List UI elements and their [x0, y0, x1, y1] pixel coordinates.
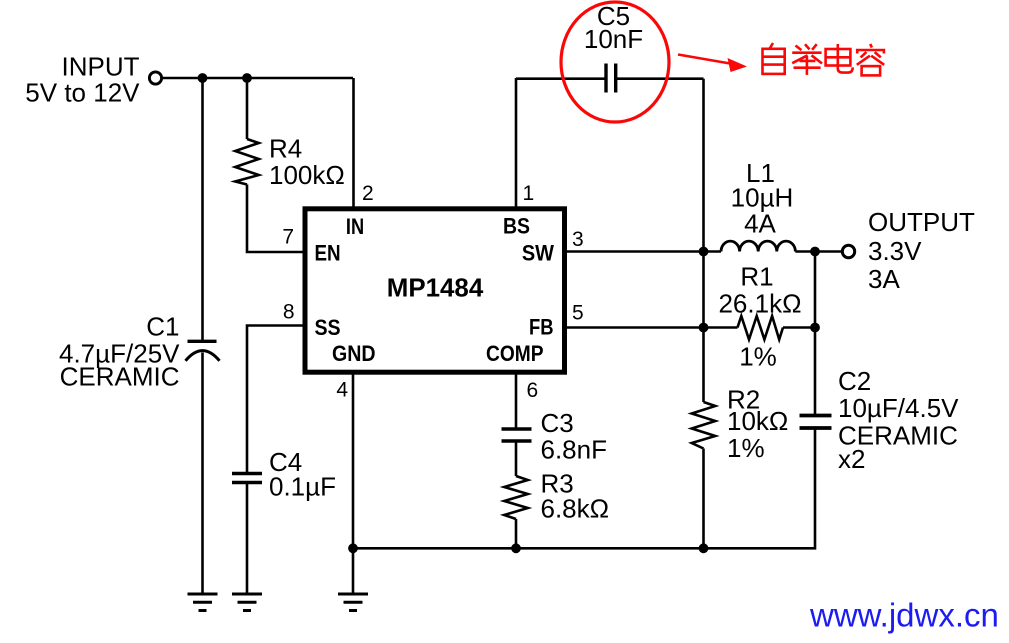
wire pin2 IN lead — [352, 78, 355, 207]
svg-text:2: 2 — [362, 182, 374, 205]
svg-text:10nF: 10nF — [584, 24, 643, 54]
svg-text:3.3V: 3.3V — [868, 236, 922, 266]
char rong (capacity) — [857, 44, 884, 75]
junction dot FB-R2 — [699, 323, 709, 333]
svg-text:C1: C1 — [146, 312, 179, 342]
char ju (lift) — [792, 44, 822, 75]
svg-text:SS: SS — [315, 315, 341, 340]
capacitor C4 label — [269, 447, 336, 502]
capacitor C3 label — [541, 408, 608, 465]
svg-text:10µF/4.5V: 10µF/4.5V — [838, 393, 959, 423]
svg-text:COMP: COMP — [486, 341, 544, 366]
svg-text:1: 1 — [523, 182, 535, 205]
svg-text:4A: 4A — [744, 209, 776, 239]
resistor R4 label — [269, 134, 345, 191]
svg-text:C3: C3 — [541, 408, 574, 438]
junction dot input-R4 — [242, 73, 252, 83]
wire BS-C5 right branch down to SW node — [702, 79, 705, 252]
wire R4 top lead — [246, 78, 249, 139]
wire R3 bottom lead — [515, 519, 518, 548]
svg-text:FB: FB — [529, 315, 554, 340]
svg-text:CERAMIC: CERAMIC — [60, 362, 180, 392]
wire C1 branch lower — [201, 353, 204, 595]
resistor R1 — [738, 316, 784, 340]
wire SW pin lead — [563, 250, 721, 253]
svg-text:BS: BS — [503, 214, 530, 239]
wire C5 left — [516, 77, 605, 80]
wire input horizontal — [162, 77, 354, 80]
svg-text:6: 6 — [527, 379, 539, 402]
junction dot R3 bottom rail — [511, 543, 521, 553]
node OUTPUT label — [868, 207, 975, 294]
capacitor C5 label — [584, 1, 643, 54]
red ellipse annotation around C5 — [561, 2, 669, 122]
junction dot pin4 rail — [348, 543, 358, 553]
svg-text:GND: GND — [332, 341, 376, 366]
capacitor C4 — [232, 474, 262, 483]
wire C5 right — [617, 77, 704, 80]
svg-text:3A: 3A — [868, 264, 900, 294]
wire L1 to output — [795, 250, 842, 253]
wire R4 bottom lead to EN — [247, 185, 305, 253]
resistor R2 label — [727, 385, 788, 464]
capacitor C2 — [800, 416, 832, 429]
red annotation arrow — [678, 55, 747, 73]
junction dot FB-R1 right — [810, 323, 820, 333]
wire R1 right lead — [783, 326, 815, 329]
svg-text:1%: 1% — [727, 433, 765, 463]
wire C3 to R3 — [515, 441, 518, 476]
wire SS to C4 — [247, 326, 305, 474]
svg-text:EN: EN — [315, 240, 341, 265]
ground symbol IC (pin4) — [338, 594, 368, 611]
junction dot input-C1 — [198, 73, 208, 83]
resistor R3 — [504, 476, 528, 519]
svg-text:5V to 12V: 5V to 12V — [25, 78, 140, 108]
svg-text:5: 5 — [572, 302, 584, 325]
wire FB pin lead — [563, 326, 738, 329]
svg-text:4: 4 — [336, 379, 348, 402]
svg-text:10kΩ: 10kΩ — [727, 406, 788, 436]
char dian (electric) — [826, 44, 853, 73]
wire C2 bottom lead — [353, 428, 815, 548]
svg-text:6.8nF: 6.8nF — [541, 435, 608, 465]
svg-text:www.jdwx.cn: www.jdwx.cn — [809, 597, 999, 634]
capacitor C5 — [606, 64, 616, 93]
inductor L1 label — [731, 158, 794, 239]
svg-text:1%: 1% — [739, 342, 777, 372]
svg-text:100kΩ: 100kΩ — [269, 160, 345, 190]
svg-text:7: 7 — [282, 226, 294, 249]
wire C4 bottom lead — [246, 483, 249, 595]
svg-text:26.1kΩ: 26.1kΩ — [718, 289, 801, 319]
char zi (self) — [763, 43, 785, 74]
input terminal circle — [149, 72, 161, 84]
wire pin1 BS lead — [515, 78, 518, 207]
svg-text:0.1µF: 0.1µF — [269, 472, 336, 502]
inductor L1 — [721, 241, 795, 251]
ground symbol middle (C4) — [232, 594, 262, 611]
wire C1 branch upper — [201, 78, 204, 341]
capacitor C2 label — [838, 366, 959, 474]
svg-text:C2: C2 — [838, 366, 871, 396]
junction dot output node — [810, 247, 820, 257]
junction dot R2 bottom rail — [699, 543, 709, 553]
wire COMP pin lead — [515, 372, 518, 429]
svg-text:R4: R4 — [269, 134, 302, 164]
svg-text:IN: IN — [346, 214, 364, 239]
wire pin4 GND lead — [352, 372, 355, 594]
capacitor C1 label — [59, 312, 180, 392]
svg-text:R1: R1 — [740, 262, 773, 292]
capacitor C3 — [502, 429, 532, 441]
svg-text:MP1484: MP1484 — [387, 273, 484, 303]
wire SW node down through R2 — [702, 252, 705, 403]
svg-text:SW: SW — [522, 240, 554, 265]
svg-text:8: 8 — [283, 301, 295, 324]
ground symbol left (C1) — [188, 594, 218, 611]
wire output node down to C2 — [814, 252, 817, 416]
resistor R1 label — [718, 262, 801, 372]
junction dot SW-node — [699, 247, 709, 257]
op-amp U1 MP1484 body — [305, 209, 565, 372]
resistor R2 — [692, 402, 716, 449]
svg-text:6.8kΩ: 6.8kΩ — [541, 494, 610, 524]
output terminal circle — [842, 245, 854, 257]
svg-text:3: 3 — [572, 228, 584, 251]
svg-text:x2: x2 — [838, 444, 865, 474]
red annotation text bootstrap capacitor — [763, 43, 885, 75]
svg-text:OUTPUT: OUTPUT — [868, 207, 975, 237]
resistor R3 label — [541, 469, 610, 524]
resistor R4 — [235, 139, 259, 185]
wire R2 bottom lead — [702, 449, 705, 549]
capacitor C1 — [186, 341, 220, 361]
